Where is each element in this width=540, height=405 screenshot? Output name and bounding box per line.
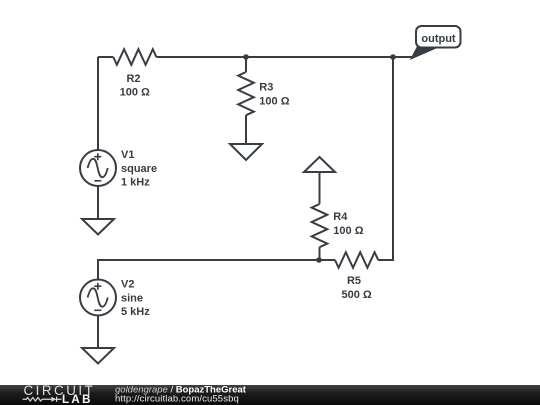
wire V1 top lead (to top-left corner) (97, 57, 99, 150)
svg-text:R4: R4 (333, 211, 348, 223)
wire V2 top lead and bottom horizontal wire (98, 260, 319, 280)
junction dot node B (R3 tap) (243, 54, 249, 60)
footer bar (0, 385, 540, 405)
wire V1 bottom lead (97, 186, 99, 219)
wire R3 bottom lead (245, 115, 247, 144)
wire V2 bottom lead (97, 316, 99, 349)
wire R5 right lead and right vertical riser (378, 57, 393, 260)
power arrow above R4 (304, 157, 335, 172)
wire node C to R5 left lead (319, 259, 335, 261)
svg-text:R3: R3 (259, 82, 273, 94)
svg-text:1 kHz: 1 kHz (121, 177, 150, 189)
ground below R3 (230, 144, 262, 160)
svg-text:V1: V1 (121, 149, 134, 161)
svg-text:square: square (121, 163, 157, 175)
svg-text:R5: R5 (347, 275, 361, 287)
wire top middle (R2 right lead to output node) (156, 56, 413, 58)
svg-text:V2: V2 (121, 278, 134, 290)
svg-text:LAB: LAB (62, 394, 93, 405)
resistor R3 (238, 72, 290, 115)
ground below V1 (82, 219, 114, 235)
svg-text:100 Ω: 100 Ω (120, 87, 150, 99)
wire R3 top lead (245, 57, 247, 72)
svg-text:http://circuitlab.com/cu55sbq: http://circuitlab.com/cu55sbq (115, 394, 239, 405)
resistor R5 (335, 252, 378, 301)
svg-text:100 Ω: 100 Ω (259, 95, 289, 107)
voltage source V2 (80, 278, 150, 318)
resistor R4 (312, 204, 364, 247)
wire R4 top lead (319, 172, 321, 204)
voltage source V1 (80, 149, 157, 189)
node flag output (412, 26, 461, 58)
svg-text:sine: sine (121, 293, 143, 305)
svg-text:output: output (421, 33, 456, 45)
junction dot output node (390, 54, 396, 60)
svg-text:R2: R2 (126, 73, 140, 85)
svg-text:100 Ω: 100 Ω (333, 225, 363, 237)
junction dot node C (R4/R5 tap) (316, 257, 322, 263)
wire R4 bottom lead (319, 247, 321, 260)
wire top-left horizontal (node A to R2 left lead) (98, 56, 113, 58)
ground below V2 (82, 348, 114, 364)
svg-text:500 Ω: 500 Ω (341, 289, 371, 301)
svg-text:5 kHz: 5 kHz (121, 306, 150, 318)
resistor R2 (113, 49, 156, 98)
logo doodle: wire-resistor-diode line (23, 397, 62, 402)
